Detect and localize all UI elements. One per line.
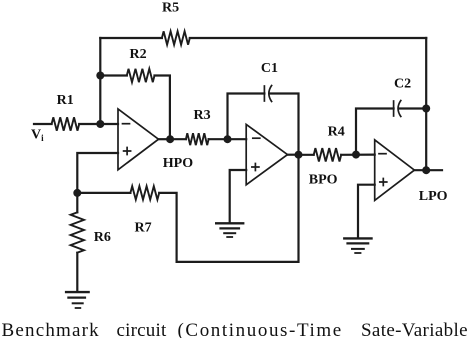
svg-text:R2: R2 (130, 47, 147, 62)
resistor R2 (127, 69, 155, 82)
wire node to R6 (76, 193, 78, 212)
resistor R5 (162, 31, 190, 44)
wire input Vi lead (34, 123, 52, 125)
svg-text:R7: R7 (135, 221, 152, 236)
wire HPO node to R3 (170, 138, 186, 140)
op-amp U2 (246, 124, 287, 184)
wire R3 to U2 inverting input (209, 138, 247, 140)
wire C1 left leg up (228, 94, 265, 140)
wire U2 output to BPO node (288, 154, 299, 156)
resistor R7 (130, 186, 159, 199)
svg-text:Vi: Vi (31, 128, 44, 144)
node junction input (96, 120, 104, 128)
wire BPO to R4 (299, 154, 314, 156)
wire R4 to U3 inverting input (341, 154, 375, 156)
node junction R1 R2 R5 (96, 72, 104, 80)
wire U1 output to HPO node (159, 138, 171, 140)
resistor R3 (186, 133, 209, 145)
wire top feedback run right of R5 (190, 37, 426, 39)
wire R2 right and down to HPO node (155, 76, 170, 140)
node C2 right (422, 105, 430, 113)
svg-text:LPO: LPO (419, 189, 448, 204)
svg-text:R3: R3 (194, 108, 211, 123)
svg-text:R6: R6 (94, 230, 111, 245)
wire node to R7 (77, 192, 130, 194)
capacitor C1 (264, 86, 271, 102)
wire vertical input node column (99, 38, 101, 124)
op-amp U1 (118, 109, 159, 170)
svg-text:R4: R4 (328, 124, 345, 139)
wire U3 noninverting input to ground (358, 185, 375, 238)
capacitor C2 (394, 101, 401, 117)
wire U3 output (414, 169, 442, 171)
wire R2 row left (100, 74, 127, 76)
svg-text:BPO: BPO (309, 173, 338, 188)
ground op-amp U3 (344, 238, 371, 253)
wire C1 right leg down to BPO node (270, 94, 298, 155)
wire R6 to ground (76, 253, 78, 291)
node LPO (422, 166, 430, 174)
ground R6 (66, 292, 89, 308)
wire U1 noninverting input (77, 153, 118, 193)
caption text (0, 319, 474, 321)
wire C2 left leg up (356, 109, 394, 155)
wire U2 noninverting input to ground (230, 170, 247, 223)
wire R7 return path to BPO (159, 155, 298, 262)
node C2 junction (352, 151, 360, 159)
wire C2 right leg to LPO column (400, 107, 427, 109)
op-amp U3 (375, 140, 415, 201)
node BPO (295, 151, 303, 159)
resistor R6 (71, 212, 84, 252)
svg-text:HPO: HPO (163, 156, 193, 171)
node HPO (166, 135, 174, 143)
svg-text:R1: R1 (57, 93, 74, 108)
wire top feedback run left of R5 (100, 37, 162, 39)
svg-text:R5: R5 (162, 1, 179, 16)
node C1 junction (224, 135, 232, 143)
ground op-amp U2 (216, 223, 243, 237)
wire R1 to op-amp U1 inverting input (79, 123, 118, 125)
node R6 R7 junction (73, 189, 81, 197)
resistor R4 (314, 148, 342, 161)
svg-text:C1: C1 (261, 61, 278, 76)
wire LPO vertical column (425, 38, 427, 170)
resistor R1 (52, 117, 80, 130)
svg-text:C2: C2 (394, 77, 411, 92)
